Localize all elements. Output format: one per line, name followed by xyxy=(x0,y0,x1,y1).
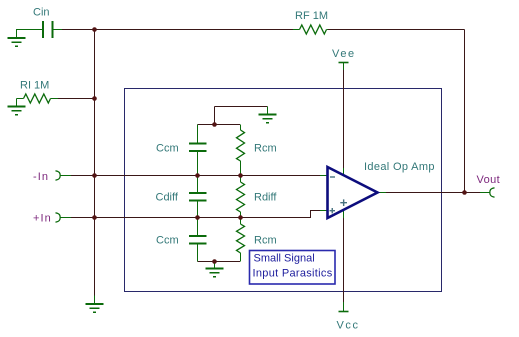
resistor Rdiff xyxy=(237,176,245,218)
svg-text:Ideal Op Amp: Ideal Op Amp xyxy=(364,161,435,173)
wire RI to rail xyxy=(58,98,95,100)
terminal -In xyxy=(56,171,72,180)
resistor RF 1M xyxy=(293,25,328,34)
svg-text:-In: -In xyxy=(33,171,49,183)
terminal Vout xyxy=(480,188,495,197)
junction at Cin / top wire xyxy=(92,27,97,32)
junction Rcm upper / -In xyxy=(238,173,243,178)
op-amp plus input mark xyxy=(330,208,336,213)
junction Rdiff / +In xyxy=(238,215,243,220)
ground (RI) xyxy=(8,99,26,115)
ground (top inside box) xyxy=(259,107,277,123)
svg-text:Vcc: Vcc xyxy=(337,320,360,332)
svg-text:Small Signal: Small Signal xyxy=(254,253,315,265)
terminal +In xyxy=(56,213,72,222)
enclosure box xyxy=(125,89,442,292)
op-amp V+ supply mark xyxy=(340,199,347,206)
capacitor Ccm (lower) xyxy=(189,218,207,262)
junction top node xyxy=(212,122,217,127)
wire input rail vertical xyxy=(94,30,96,296)
ground (bottom inside box) xyxy=(206,262,224,277)
wire Vcc supply xyxy=(343,218,345,303)
junction Cdiff / +In xyxy=(195,215,200,220)
svg-text:RI 1M: RI 1M xyxy=(20,80,49,92)
resistor Rcm (lower) xyxy=(237,218,245,262)
svg-text:Rcm: Rcm xyxy=(254,235,277,247)
wire feedback vertical xyxy=(464,30,466,193)
capacitor Cdiff xyxy=(189,176,207,218)
svg-text:Ccm: Ccm xyxy=(156,235,179,247)
ground (input rail) xyxy=(86,296,104,313)
wire -In horizontal xyxy=(60,175,320,177)
op-amp pin stubs xyxy=(320,168,386,218)
junction bottom node xyxy=(212,259,217,264)
op-amp minus input mark xyxy=(330,176,335,178)
junction at RI / rail xyxy=(92,96,97,101)
power Vee xyxy=(339,63,349,71)
svg-text:+In: +In xyxy=(33,213,52,225)
svg-text:RF 1M: RF 1M xyxy=(295,10,328,22)
text box Small Signal Input Parasitics xyxy=(250,251,336,285)
capacitor Ccm (upper) xyxy=(189,125,207,176)
junction at -In / rail xyxy=(92,173,97,178)
svg-text:Vee: Vee xyxy=(332,48,356,60)
svg-text:Input Parasitics: Input Parasitics xyxy=(253,268,333,280)
junction output / feedback xyxy=(462,190,467,195)
ground (Cin) xyxy=(8,38,26,46)
resistor Rcm (upper) xyxy=(237,125,245,176)
svg-text:Rcm: Rcm xyxy=(254,143,277,155)
svg-text:Vout: Vout xyxy=(477,174,501,186)
svg-text:Rdiff: Rdiff xyxy=(254,192,277,204)
wire op-amp output to Vout xyxy=(386,192,480,194)
capacitor Cin xyxy=(17,21,63,38)
power Vcc xyxy=(339,302,349,312)
wire top net (Cin to RF to feedback corner) xyxy=(52,29,465,31)
junction Ccm upper / -In xyxy=(195,173,200,178)
wire +In horizontal with step xyxy=(60,211,320,218)
op-amp U1 (Ideal Op Amp) xyxy=(328,167,378,218)
wire Vee supply xyxy=(343,70,345,168)
svg-text:Cdiff: Cdiff xyxy=(156,192,179,204)
resistor RI 1M xyxy=(17,94,59,103)
wire top node inside box xyxy=(198,107,268,125)
svg-text:Ccm: Ccm xyxy=(156,143,179,155)
junction at +In / rail xyxy=(92,215,97,220)
wire bottom node inside box xyxy=(198,261,241,263)
svg-text:Cin: Cin xyxy=(33,7,50,19)
